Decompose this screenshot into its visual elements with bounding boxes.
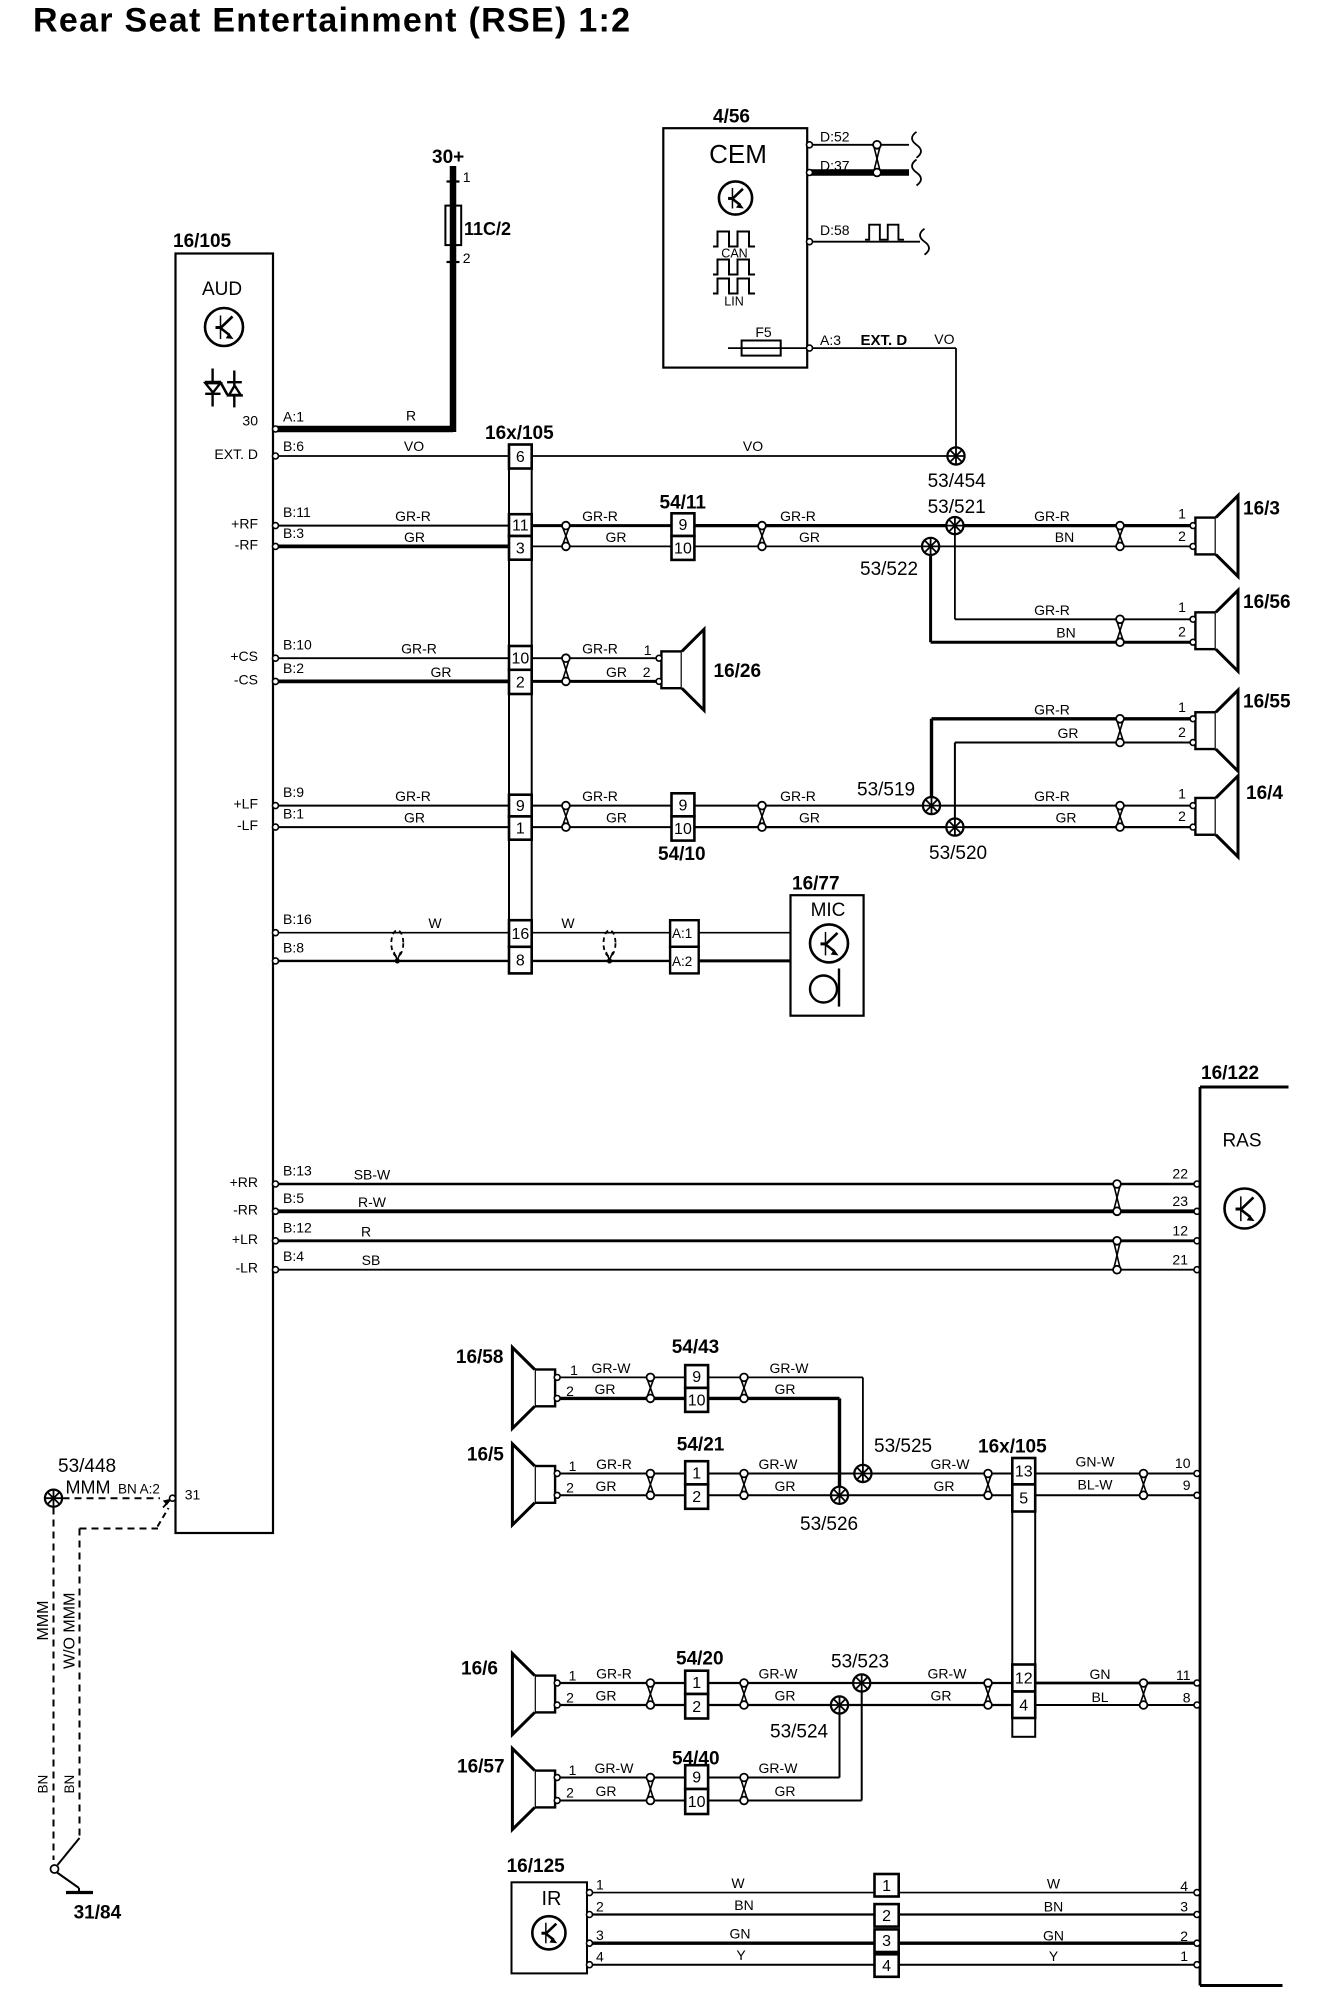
svg-text:4: 4 (1180, 1878, 1188, 1894)
shield symbol at 609 (604, 930, 616, 963)
connector strip 16x/105 upper (509, 445, 532, 974)
svg-text:10: 10 (688, 1794, 706, 1811)
svg-text:D:58: D:58 (820, 222, 850, 238)
wire GR from 16/5 pin 2 to 54/21 (560, 1494, 685, 1496)
labels GR-R / GR 16/5 (596, 1456, 632, 1494)
svg-text:16/26: 16/26 (714, 661, 762, 682)
svg-text:GR-R: GR-R (596, 1666, 632, 1682)
svg-text:GR: GR (606, 810, 627, 826)
svg-text:31: 31 (185, 1487, 201, 1503)
wire solid from W/O MMM branch to junction (58, 1838, 80, 1865)
RAS pin 12 (1172, 1223, 1200, 1244)
pin labels speaker 16/56 (1178, 599, 1186, 640)
svg-text:53/522: 53/522 (860, 559, 918, 580)
labels GR-R / GR segment 2 LF (582, 788, 627, 826)
svg-text:30: 30 (242, 413, 258, 429)
wire BN from connector to RAS pin 3 (899, 1913, 1197, 1915)
wire from A:1 to MIC (699, 932, 791, 934)
svg-text:-RR: -RR (233, 1201, 258, 1217)
svg-text:W: W (731, 1875, 745, 1891)
pin labels speaker 16/57 (566, 1762, 577, 1801)
AUD triac symbol (205, 369, 243, 408)
svg-text:VO: VO (404, 438, 424, 454)
AUD pin B:4 -LR (235, 1248, 380, 1276)
wire GR-W from 54/20 to 16x/105 pin 12 (708, 1682, 1012, 1684)
svg-text:B:8: B:8 (283, 939, 304, 955)
twisted pair RF at 1120 (1116, 522, 1124, 551)
svg-text:2: 2 (463, 250, 471, 266)
svg-text:30+: 30+ (432, 147, 464, 168)
AUD pin 30 A:1 (242, 407, 416, 432)
RAS pin 3 (1180, 1899, 1200, 1918)
speaker 16/55 (1190, 690, 1238, 771)
svg-text:MMM: MMM (66, 1478, 111, 1498)
wire GR-R from 16/5 pin 1 to 54/21 (560, 1473, 685, 1475)
labels GR-W / GR 16/57 (595, 1760, 635, 1799)
RAS pin 8 (1183, 1690, 1200, 1709)
RAS pin 2 (1180, 1928, 1200, 1946)
labels GR-W / GR 16/58 (592, 1360, 632, 1397)
svg-text:2: 2 (1180, 1928, 1188, 1944)
splice 53/525 (854, 1465, 871, 1482)
svg-text:3: 3 (1180, 1899, 1188, 1915)
svg-text:1: 1 (1178, 506, 1186, 522)
svg-text:D:37: D:37 (820, 157, 850, 173)
svg-text:54/40: 54/40 (672, 1749, 720, 1770)
splice 53/520 (946, 819, 963, 836)
wire B:10 GR-R from AUD to 16x/105 (278, 657, 509, 659)
svg-text:GN: GN (1043, 1928, 1064, 1944)
pin labels speaker 16/55 (1178, 699, 1186, 740)
labels GR-R / GR segment 2 RF (582, 508, 626, 545)
svg-text:GR-W: GR-W (759, 1666, 799, 1682)
CEM pin D:52 (807, 129, 850, 148)
cell 4 (1012, 1692, 1035, 1719)
svg-text:GR-W: GR-W (928, 1666, 968, 1682)
svg-text:54/11: 54/11 (660, 493, 707, 514)
svg-text:GR-W: GR-W (595, 1760, 635, 1776)
svg-text:BN: BN (1044, 1899, 1063, 1915)
svg-text:16/56: 16/56 (1243, 592, 1291, 613)
svg-text:22: 22 (1172, 1166, 1188, 1182)
labels GN / BL (1090, 1666, 1111, 1705)
continuation squiggle D:58 (920, 229, 929, 255)
twisted pair 16/5 at 650 (647, 1470, 655, 1500)
svg-text:53/526: 53/526 (800, 1514, 858, 1535)
svg-text:2: 2 (643, 664, 651, 680)
cell 1 (509, 816, 532, 839)
AUD component symbol K (205, 308, 243, 346)
svg-text:GR: GR (431, 664, 452, 680)
svg-text:2: 2 (566, 1480, 574, 1496)
svg-text:+RR: +RR (230, 1174, 258, 1190)
svg-text:D:52: D:52 (820, 129, 850, 145)
wire GR from 54/43 to splice 53/526 thick (708, 1398, 839, 1487)
fuse 11C/2 (445, 182, 461, 263)
svg-text:2: 2 (516, 674, 525, 691)
svg-text:53/448: 53/448 (58, 1456, 116, 1477)
svg-text:AUD: AUD (202, 279, 242, 300)
AUD pin B:11 +RF (231, 504, 431, 532)
wire GR-W from 16/57 pin 1 to 54/40 (560, 1777, 685, 1779)
IR receiver 16/125 box (512, 1882, 588, 1973)
pin labels speaker 16/6 (566, 1668, 577, 1706)
wire B:13 SB-W from AUD to RAS pin 22 (278, 1183, 1197, 1185)
svg-text:GR: GR (1058, 725, 1079, 741)
svg-text:B:10: B:10 (283, 637, 312, 653)
RAS pin 1 (1180, 1948, 1200, 1968)
svg-text:-RF: -RF (235, 536, 258, 552)
RAS component symbol K (1225, 1189, 1265, 1229)
pulse symbol D:58 (865, 225, 904, 240)
splice 53/524 (831, 1696, 848, 1713)
svg-text:VO: VO (743, 438, 763, 454)
svg-text:9: 9 (678, 797, 687, 814)
svg-text:BN: BN (1055, 529, 1074, 545)
AUD pin B:2 -CS (234, 660, 452, 688)
svg-text:GR: GR (404, 810, 425, 826)
svg-text:16/6: 16/6 (461, 1659, 498, 1680)
svg-text:4/56: 4/56 (713, 107, 750, 128)
svg-text:4: 4 (882, 1958, 891, 1975)
cell 6 (509, 445, 532, 469)
pin labels speaker 16/26 (643, 642, 652, 680)
svg-text:GR-W: GR-W (759, 1456, 799, 1472)
labels GN-W / BL-W (1076, 1454, 1116, 1493)
svg-text:3: 3 (882, 1933, 891, 1950)
svg-text:BN: BN (1056, 625, 1075, 641)
wire GR from 16/57 pin 2 to 54/40 (560, 1800, 685, 1802)
svg-text:3: 3 (596, 1927, 604, 1943)
svg-text:B:3: B:3 (283, 525, 304, 541)
svg-text:53/519: 53/519 (857, 780, 915, 801)
svg-text:BN: BN (62, 1775, 77, 1794)
svg-text:54/10: 54/10 (658, 844, 706, 865)
svg-text:53/521: 53/521 (928, 497, 986, 518)
svg-text:10: 10 (688, 1392, 706, 1409)
wire GN from IR pin 3 to connector thick (590, 1941, 875, 1944)
cell 5 (1012, 1484, 1035, 1511)
svg-text:53/454: 53/454 (928, 471, 987, 492)
twisted pair 16/6 at 1141 (1140, 1679, 1148, 1709)
svg-text:GR: GR (775, 1688, 796, 1704)
svg-text:10: 10 (674, 540, 692, 557)
twisted pair 16/5 at 1141 (1140, 1470, 1148, 1500)
svg-text:+LR: +LR (232, 1231, 258, 1247)
speaker 16/4 (1190, 776, 1238, 857)
svg-text:GR-R: GR-R (395, 788, 431, 804)
svg-text:2: 2 (882, 1908, 891, 1925)
svg-text:SB: SB (362, 1252, 381, 1268)
dashed wire W/O MMM branch (80, 1508, 169, 1838)
svg-text:GR-R: GR-R (780, 788, 816, 804)
svg-text:GR: GR (596, 1783, 617, 1799)
CEM CAN waveform 1 (713, 232, 755, 247)
variant arrow at pin 31 (163, 1499, 172, 1508)
svg-text:16/77: 16/77 (792, 874, 840, 895)
svg-text:GR-R: GR-R (1034, 508, 1070, 524)
svg-text:B:4: B:4 (283, 1248, 304, 1264)
svg-text:GR: GR (799, 529, 820, 545)
IR pin 2 (587, 1897, 754, 1918)
svg-text:GR-R: GR-R (1034, 701, 1070, 717)
AUD pin B:8 (273, 939, 305, 964)
IR pin 3 (587, 1926, 751, 1947)
wire GR-W from 54/43 to splice 53/525 (708, 1377, 863, 1465)
wire Y from IR pin 4 to connector (590, 1964, 875, 1966)
wire GR from 54/20 to 16x/105 pin 4 (708, 1704, 1012, 1706)
twisted pair 16/58 at 744 (740, 1374, 748, 1403)
CEM wire D:58 (811, 241, 920, 243)
RAS pin 11 (1176, 1667, 1200, 1686)
svg-text:2: 2 (596, 1899, 604, 1915)
svg-text:GR: GR (1056, 810, 1077, 826)
wire GR-W from 54/40 up to splice 53/524 (708, 1714, 839, 1778)
CEM wire D:37 thick (811, 169, 909, 176)
cell 13 (1012, 1458, 1035, 1484)
svg-text:GR: GR (775, 1783, 796, 1799)
splice 53/448 (45, 1490, 62, 1507)
svg-text:2: 2 (566, 1785, 574, 1801)
svg-text:GR: GR (931, 1688, 952, 1704)
svg-text:2: 2 (692, 1699, 701, 1716)
cell 2 (509, 670, 532, 694)
svg-text:53/525: 53/525 (874, 1436, 932, 1457)
twisted pair 16/6 at 988 (984, 1679, 992, 1709)
RAS pin 10 (1175, 1455, 1200, 1477)
wire GR from 16x/105 to 54/11 (532, 545, 672, 547)
twisted pair 16/5 at 988 (984, 1470, 992, 1500)
wire BN from splice 53/522 down to speaker 16/56 pin 2 thick (931, 555, 1190, 642)
twisted pair 16/5 at 744 (740, 1470, 748, 1500)
connector 54/21 (685, 1461, 708, 1509)
wire GR/BN from 54/11 to speaker 16/3 pin 2 (694, 545, 1190, 547)
svg-text:IR: IR (542, 1888, 562, 1910)
svg-text:CAN: CAN (721, 247, 747, 261)
svg-text:EXT. D: EXT. D (861, 332, 908, 349)
svg-text:W: W (561, 915, 575, 931)
wire B:8 from AUD to 16x/105 (278, 960, 509, 962)
svg-text:B:13: B:13 (283, 1163, 312, 1179)
twisted pair 16/57 at 650 (647, 1774, 655, 1805)
svg-text:B:5: B:5 (283, 1190, 304, 1206)
control module 16/105 AUD box (176, 254, 274, 1534)
svg-text:4: 4 (1019, 1697, 1028, 1714)
svg-text:4: 4 (596, 1949, 604, 1965)
svg-text:BL-W: BL-W (1078, 1477, 1114, 1493)
svg-text:16x/105: 16x/105 (485, 423, 554, 444)
svg-text:W: W (1047, 1876, 1061, 1892)
svg-text:16/4: 16/4 (1246, 783, 1283, 804)
svg-text:1: 1 (516, 821, 525, 838)
svg-text:GR: GR (404, 529, 425, 545)
AUD pin B:5 -RR (233, 1190, 387, 1218)
ground 31/84 (66, 1891, 93, 1894)
svg-text:GR: GR (775, 1478, 796, 1494)
svg-text:BL: BL (1091, 1689, 1108, 1705)
wire GR from 54/10 to speaker 16/4 pin 2 (694, 826, 1190, 828)
twisted pair RF at 762 (758, 522, 766, 551)
twisted pair 16/4 (1116, 802, 1124, 831)
svg-text:9: 9 (1183, 1477, 1191, 1493)
splice 53/526 (831, 1487, 848, 1504)
svg-text:B:6: B:6 (283, 438, 304, 454)
svg-text:SB-W: SB-W (354, 1167, 391, 1183)
svg-text:R-W: R-W (358, 1194, 387, 1210)
RAS pin 22 (1172, 1166, 1200, 1188)
AUD pin B:13 +RR (230, 1163, 391, 1191)
dashed wire MMM vertical (53, 1508, 55, 1861)
cell 10 (509, 646, 532, 670)
labels GR-R / BN 16/56 (1034, 602, 1076, 641)
svg-text:Y: Y (1049, 1948, 1059, 1964)
labels GR-R / GR segment 3 RF (780, 508, 820, 545)
svg-text:16x/105: 16x/105 (978, 1437, 1047, 1458)
svg-text:B:9: B:9 (283, 784, 304, 800)
svg-text:1: 1 (1178, 699, 1186, 715)
svg-text:B:11: B:11 (283, 504, 311, 520)
svg-text:B:1: B:1 (283, 806, 304, 822)
wire GR from 16/6 pin 2 to 54/20 (560, 1704, 685, 1706)
speaker 16/5 (512, 1444, 560, 1525)
svg-text:MMM: MMM (35, 1601, 52, 1641)
svg-text:16/3: 16/3 (1243, 499, 1280, 520)
wire GR-R from 54/10 to speaker 16/4 pin 1 (694, 805, 1190, 807)
labels GR-R / BN segment 4 RF (1034, 508, 1074, 545)
svg-text:53/523: 53/523 (831, 1652, 889, 1673)
splice 53/519 (923, 797, 940, 814)
wire W from connector to RAS pin 4 (899, 1892, 1197, 1894)
svg-text:1: 1 (882, 1878, 891, 1895)
twisted pair RR (1113, 1180, 1121, 1215)
wire to ground (57, 1873, 79, 1893)
RAS pin 23 (1172, 1193, 1200, 1214)
twisted pair 16/6 at 744 (740, 1679, 748, 1709)
svg-text:GR-R: GR-R (1034, 602, 1070, 618)
splice 53/454 (947, 447, 964, 464)
svg-text:W/O MMM: W/O MMM (62, 1593, 79, 1669)
CEM wire A:3 EXT. D / VO (811, 348, 956, 450)
fuse pin labels (463, 169, 511, 266)
svg-text:9: 9 (678, 517, 687, 534)
wire BL-W from 16x/105 to RAS pin 9 (1035, 1494, 1197, 1496)
svg-text:A:1: A:1 (672, 926, 692, 941)
speaker 16/26 (656, 629, 704, 710)
fuse F5 (728, 324, 807, 356)
wire GR from 16x/105 to speaker 16/26 pin 2 thick (532, 680, 656, 683)
labels GR-R / GR segment 4 16/4 (1034, 788, 1076, 826)
svg-text:BN: BN (36, 1775, 51, 1794)
wire GR from 16/58 pin 2 to 54/43 thick (560, 1397, 685, 1400)
wire B:12 R from AUD to RAS pin 12 (278, 1239, 1197, 1242)
svg-text:1: 1 (570, 1362, 578, 1378)
twisted pair D:52/D:37 (873, 141, 881, 177)
IR component symbol K (532, 1916, 565, 1949)
connector 54/10 (672, 793, 695, 840)
svg-text:6: 6 (516, 449, 525, 466)
connector 54/43 (685, 1365, 708, 1412)
wire BN from IR pin 2 to connector (590, 1913, 875, 1915)
connector 54/20 (685, 1671, 708, 1719)
svg-text:11: 11 (1176, 1667, 1191, 1683)
svg-text:GR: GR (595, 1381, 616, 1397)
wire B:1 GR from AUD to 16x/105 (278, 826, 509, 828)
svg-text:12: 12 (1015, 1671, 1033, 1688)
svg-text:1: 1 (644, 642, 652, 658)
CEM pin D:58 (807, 222, 850, 245)
wire B:9 GR-R from AUD to 16x/105 (278, 805, 509, 807)
wire GR-W from 16/58 pin 1 to 54/43 (560, 1376, 685, 1378)
svg-text:16/55: 16/55 (1243, 692, 1291, 713)
svg-text:Y: Y (736, 1947, 746, 1963)
svg-text:10: 10 (1175, 1455, 1191, 1471)
svg-text:B:2: B:2 (283, 660, 304, 676)
pin labels speaker 16/4 (1178, 786, 1186, 824)
wire BL from 16x/105 to RAS pin 8 (1035, 1704, 1197, 1706)
CEM component symbol K (719, 181, 752, 214)
wire B:16 W from AUD to 16x/105 (278, 932, 509, 934)
svg-text:GR-R: GR-R (582, 508, 618, 524)
twisted pair 16/58 at 650 (647, 1374, 655, 1403)
wire GR-R from 54/11 to speaker 16/3 pin 1 thick (694, 524, 1190, 527)
speaker 16/58 (512, 1347, 560, 1428)
wire from A:2 to MIC thick (699, 959, 791, 962)
AUD pin B:12 +LR (232, 1219, 371, 1247)
twisted pair 16/56 (1116, 615, 1124, 646)
svg-text:R: R (361, 1223, 371, 1239)
svg-text:GR: GR (934, 1478, 955, 1494)
wire VO from 16x/105 to splice 53/454 (532, 455, 952, 457)
svg-text:11: 11 (512, 518, 529, 535)
twisted pair LR (1113, 1237, 1121, 1274)
svg-text:8: 8 (516, 953, 525, 970)
svg-text:9: 9 (692, 1770, 701, 1787)
RAS pin 4 (1180, 1878, 1200, 1896)
svg-text:16/57: 16/57 (457, 1757, 505, 1778)
svg-text:+RF: +RF (231, 516, 258, 532)
svg-text:2: 2 (1178, 724, 1186, 740)
svg-text:9: 9 (692, 1369, 701, 1386)
splice 53/522 (922, 538, 939, 555)
svg-text:GR-R: GR-R (582, 788, 618, 804)
AUD pin 31 (170, 1487, 201, 1503)
svg-text:21: 21 (1172, 1252, 1188, 1268)
labels GR-W / GR segment 2 16/57 (759, 1760, 799, 1799)
AUD pin B:3 -RF (235, 525, 425, 553)
wire GR-R from 16x/105 to speaker 16/26 pin 1 (532, 657, 656, 659)
svg-text:1: 1 (569, 1762, 577, 1778)
svg-text:-LF: -LF (237, 817, 258, 833)
wire W from IR pin 1 to connector (590, 1892, 875, 1894)
svg-text:2: 2 (1178, 808, 1186, 824)
svg-text:GR-W: GR-W (931, 1456, 971, 1472)
wire B:4 SB from AUD to RAS pin 21 (278, 1269, 1197, 1271)
svg-text:GR-W: GR-W (592, 1360, 632, 1376)
wire GR-R from splice 53/519 up to speaker 16/55 pin 1 thick (932, 719, 1191, 797)
svg-text:A:2: A:2 (140, 1482, 160, 1497)
wire from 16x/105 to connector A:2 (532, 960, 670, 962)
dashed wire MMM from splice to AUD pin 31 (63, 1497, 161, 1499)
microphone 16/77 box (791, 895, 864, 1016)
svg-text:54/20: 54/20 (676, 1649, 724, 1670)
svg-text:GR-R: GR-R (596, 1456, 632, 1472)
twisted pair RF at 566 (562, 522, 570, 551)
svg-text:1: 1 (1178, 599, 1186, 615)
svg-text:10: 10 (511, 650, 529, 667)
svg-text:+CS: +CS (230, 648, 258, 664)
CEM pin A:3 (807, 332, 842, 351)
microphone symbol (810, 969, 839, 1007)
